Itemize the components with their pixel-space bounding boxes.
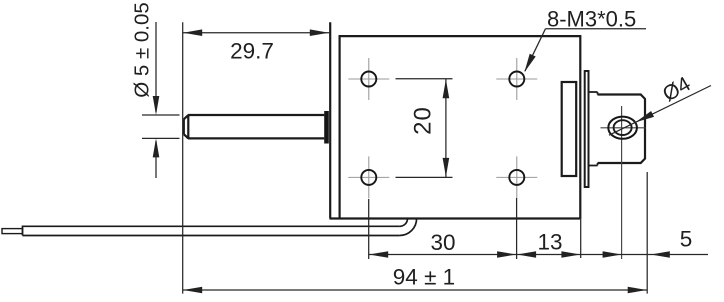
svg-text:20: 20 <box>409 106 436 135</box>
dim 20 text <box>409 106 436 135</box>
svg-text:Ø 5 ± 0.05: Ø 5 ± 0.05 <box>131 2 154 98</box>
cylinder hole centerline horizontal <box>601 127 646 129</box>
bobbin flange <box>562 82 577 176</box>
label O4 leader <box>609 86 711 136</box>
label 8-M3*0.5 leader <box>524 29 545 72</box>
hole top-left <box>361 72 376 87</box>
plunger shaft <box>184 115 324 138</box>
dim 5 extension line right (also 94 right) <box>646 172 648 294</box>
label O4 text <box>659 72 695 106</box>
dim 29.7 line <box>183 29 330 36</box>
lead wire tip <box>2 229 23 234</box>
dim 30 extension line left <box>368 199 370 259</box>
dim 13 extension line middle <box>516 198 518 259</box>
dim 13 text <box>537 230 562 255</box>
hole O4 outer <box>608 117 637 139</box>
hole bottom-right centerlines <box>496 156 537 198</box>
label 8-M3*0.5 underline <box>546 28 647 30</box>
dim 20 line <box>443 79 450 178</box>
svg-text:29.7: 29.7 <box>230 39 274 64</box>
dim O5 text <box>131 2 154 98</box>
dim 5 text <box>680 227 693 252</box>
hole bottom-left <box>361 170 376 185</box>
dim 30 text <box>430 230 455 255</box>
dim line 30-13-5 <box>369 251 708 258</box>
dim 20 extension lines <box>396 79 453 178</box>
cylinder body <box>598 95 646 164</box>
dim 13 extension line right (plate edge) <box>580 219 582 259</box>
washer plate <box>585 71 589 187</box>
dim 29.7 extension line left (also 94 left) <box>182 22 184 293</box>
mounting plate outline <box>330 36 581 218</box>
svg-text:30: 30 <box>430 230 455 255</box>
shaft end washer <box>324 111 329 144</box>
hole top-left centerlines <box>348 58 389 100</box>
hole bottom-right <box>509 170 524 185</box>
hole top-right centerlines <box>496 58 537 100</box>
svg-text:8-M3*0.5: 8-M3*0.5 <box>547 7 636 32</box>
lead wire <box>23 226 400 235</box>
label 8-M3*0.5 text <box>547 7 636 32</box>
dim 94 line <box>183 287 648 294</box>
svg-text:Ø4: Ø4 <box>659 72 695 106</box>
dim 29.7 text <box>230 39 274 64</box>
cylinder hole centerline vertical <box>621 106 623 259</box>
svg-text:13: 13 <box>537 230 562 255</box>
dim 94 text <box>393 264 455 289</box>
hole O4 inner <box>614 120 632 135</box>
dim O5 line and arrows <box>142 22 180 178</box>
hole top-right <box>509 72 524 87</box>
lead wire bend arcs <box>400 219 417 236</box>
cylinder neck tab <box>589 92 598 166</box>
svg-text:5: 5 <box>680 227 693 252</box>
hole bottom-left centerlines <box>348 156 389 198</box>
frame left face line <box>329 22 331 218</box>
svg-text:94 ± 1: 94 ± 1 <box>393 264 455 289</box>
